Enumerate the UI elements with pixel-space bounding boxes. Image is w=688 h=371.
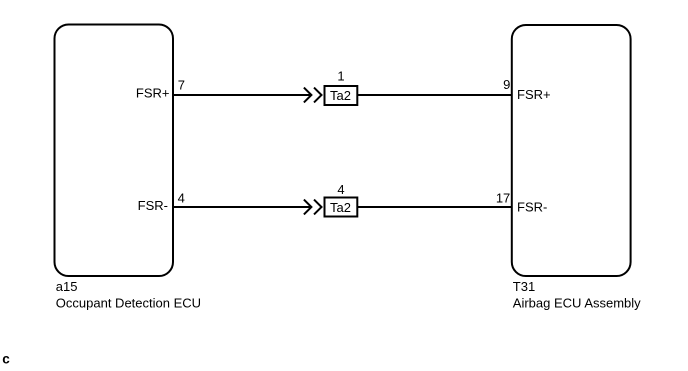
svg-text:Ta2: Ta2 (330, 88, 351, 103)
svg-text:9: 9 (503, 77, 510, 92)
connector chevron 2 on FSR+ wire (314, 88, 322, 103)
svg-text:T31: T31 (513, 279, 535, 294)
svg-text:FSR+: FSR+ (136, 86, 170, 101)
wire FSR- right segment (357, 206, 512, 208)
svg-text:Ta2: Ta2 (330, 200, 351, 215)
connector chevron 2 on FSR- wire (314, 200, 322, 215)
connector Ta2 box on FSR+ wire (325, 86, 358, 105)
svg-text:FSR-: FSR- (517, 200, 547, 215)
svg-text:FSR-: FSR- (138, 198, 168, 213)
svg-text:Airbag ECU Assembly: Airbag ECU Assembly (513, 295, 641, 310)
svg-text:c: c (2, 352, 10, 366)
connector chevron 1 on FSR+ wire (304, 88, 312, 103)
svg-text:4: 4 (337, 182, 344, 197)
wire FSR+ left segment (173, 94, 311, 96)
svg-text:7: 7 (178, 77, 185, 92)
svg-text:FSR+: FSR+ (517, 87, 551, 102)
svg-text:4: 4 (178, 190, 185, 205)
ECU block a15 (Occupant Detection ECU) (55, 25, 174, 277)
wire FSR+ right segment (357, 94, 512, 96)
connector Ta2 box on FSR- wire (325, 198, 358, 217)
connector chevron 1 on FSR- wire (304, 200, 312, 215)
wire FSR- left segment (173, 206, 311, 208)
svg-text:17: 17 (496, 191, 510, 206)
ECU block T31 (Airbag ECU Assembly) (512, 25, 631, 276)
svg-text:Occupant Detection ECU: Occupant Detection ECU (56, 295, 201, 310)
svg-text:a15: a15 (56, 279, 78, 294)
svg-text:1: 1 (337, 68, 344, 83)
